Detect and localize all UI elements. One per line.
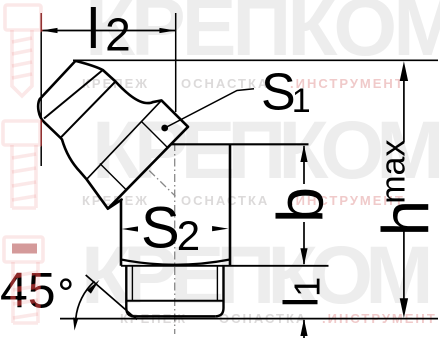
- baseline (mounting surface): [60, 318, 438, 320]
- body hex bottom chamfer arc: [121, 260, 230, 265]
- watermark screw icons column (over drawing, translucent red): [3, 5, 43, 323]
- svg-text:КРЕПЕЖ: КРЕПЕЖ: [82, 193, 149, 208]
- fitting head silhouette (45 deg): [38, 61, 188, 209]
- hex S1 upper facet line: [142, 122, 168, 148]
- arrow l2 left: [41, 28, 57, 33]
- svg-text:КРЕПЕЖ: КРЕПЕЖ: [82, 76, 149, 91]
- svg-text:.ИНСТРУМЕНТ: .ИНСТРУМЕНТ: [290, 76, 405, 91]
- arrow S2 left: [122, 226, 138, 231]
- svg-text:ОСНАСТКА: ОСНАСТКА: [219, 311, 307, 326]
- dimension l2: dimension line: [41, 30, 176, 32]
- dimension l2: left extension line: [40, 13, 42, 166]
- label 45deg degree circle: [61, 280, 70, 289]
- thread outer left edge with chamfer corner: [126, 266, 134, 317]
- watermark big text rows: [81, 0, 440, 321]
- screw icon 2: [3, 121, 40, 208]
- screw icon 1: [5, 5, 41, 96]
- dimension hmax: top reference line: [73, 59, 438, 61]
- dimension b: dimension line upper part: [303, 146, 305, 184]
- dimension b: dimension line lower part: [303, 222, 305, 264]
- body hex right edge: [229, 144, 232, 265]
- svg-text:КРЕПКОМ: КРЕПКОМ: [85, 0, 440, 73]
- screw icon 3: [4, 237, 43, 323]
- hex S1 chamfer edge: [87, 100, 162, 179]
- svg-text:.ИНСТРУМЕНТ: .ИНСТРУМЕНТ: [322, 311, 437, 326]
- svg-text:КРЕПКОМ: КРЕПКОМ: [81, 230, 428, 321]
- svg-text:КРЕПКОМ: КРЕПКОМ: [92, 105, 439, 196]
- svg-text:КРЕПЕЖ: КРЕПЕЖ: [120, 311, 187, 326]
- 45deg angle: arc: [76, 281, 95, 318]
- arrow l1 up (below baseline): [300, 319, 307, 336]
- thread bottom edge: [135, 315, 216, 317]
- arrow hmax top: [400, 61, 408, 81]
- thread root line right: [216, 266, 218, 301]
- 45deg angle: diagonal line: [86, 275, 137, 320]
- arrow l2 right: [159, 28, 175, 33]
- body hex left edge: [120, 200, 123, 266]
- arrow hmax bottom: [400, 298, 408, 318]
- svg-text:ОСНАСТКА: ОСНАСТКА: [181, 193, 269, 208]
- thread outer right edge with chamfer corner: [215, 266, 223, 317]
- dimension l2: right extension line: [175, 13, 177, 112]
- wire: centerline of vertical body (dash-dot): [174, 112, 176, 334]
- arrow b top: [300, 145, 307, 162]
- arrow S2 right: [212, 226, 228, 231]
- thread root line left: [131, 266, 133, 301]
- dimension l1: bottom arrow shaft: [303, 320, 305, 338]
- watermark small text rows: [82, 76, 437, 326]
- dimension hmax: dimension line lower part: [403, 227, 405, 300]
- svg-text:ОСНАСТКА: ОСНАСТКА: [181, 76, 269, 91]
- body hex S2: top face line + b reference extension: [171, 143, 309, 145]
- arrow 45deg arc top: [87, 280, 100, 294]
- watermark icons screen-blend tint pass: [3, 5, 43, 323]
- dimension hmax: dimension line upper part: [403, 79, 405, 142]
- body hex bottom line + b/l1 reference extension: [121, 265, 329, 267]
- hex S1 lower facet line: [100, 164, 126, 190]
- wire: centerline of angled head axis (dash-dot): [116, 138, 176, 196]
- thread chamfer line: [126, 300, 223, 302]
- svg-text:.ИНСТРУМЕНТ: .ИНСТРУМЕНТ: [290, 193, 405, 208]
- arrow 45deg arc bottom: [73, 318, 78, 331]
- arrowheads: [41, 28, 408, 336]
- S1 leader dot: [161, 125, 168, 132]
- head cap band line: [61, 82, 116, 138]
- S1 leader line: [165, 89, 254, 128]
- arrow b bottom: [300, 248, 307, 265]
- head cap chamfer line: [44, 70, 103, 119]
